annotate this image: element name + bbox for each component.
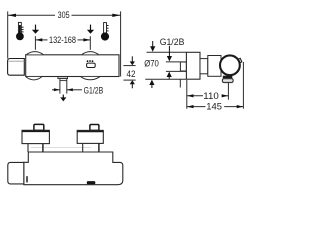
ext left (flange) <box>186 80 188 109</box>
svg-text:G1/2B: G1/2B <box>84 85 104 96</box>
union bump bottom-left <box>26 77 42 80</box>
ext line right <box>89 36 91 50</box>
ext flange top <box>147 51 187 53</box>
union bump bottom-right <box>81 77 100 80</box>
ext flange bottom <box>145 78 186 80</box>
ext right 145 <box>242 62 244 109</box>
flow arrow down outlet <box>60 95 66 102</box>
left union cap <box>34 124 44 130</box>
flow arrow down left <box>32 25 39 34</box>
dia70 bottom arrow <box>149 80 154 88</box>
thermometer hot (left, filled) <box>16 22 24 40</box>
dims 110 / 145 <box>187 62 244 109</box>
dim line 110 <box>187 95 203 97</box>
ext nipple bottom <box>166 70 187 72</box>
flow arrow down right <box>87 25 94 34</box>
dim line <box>35 39 47 41</box>
G1/2B leader arrow up <box>167 72 172 80</box>
svg-text:145: 145 <box>206 102 222 113</box>
outlet icon on bar <box>87 60 96 67</box>
svg-text:305: 305 <box>58 10 70 21</box>
dim 42 <box>123 66 135 81</box>
right union block <box>77 130 103 143</box>
mixer bar body (illustration) <box>24 152 123 185</box>
left union stem <box>27 144 29 152</box>
svg-text:42: 42 <box>127 69 136 80</box>
thermometer cold (right, empty stem) <box>101 23 109 41</box>
bottom outlet (front) <box>58 77 68 79</box>
dia70 top arrow <box>150 41 155 52</box>
left union block <box>22 130 49 143</box>
wall flange dia70 (side) <box>186 52 200 79</box>
arrow 132-168 left <box>36 38 43 41</box>
mixer bar body (front) <box>26 55 119 77</box>
right union stem <box>82 143 84 152</box>
ext line left <box>34 36 36 50</box>
dim G1/2B front <box>52 89 60 91</box>
temperature knob (illustration) <box>8 162 24 184</box>
dim line 145 <box>187 106 206 108</box>
arrow 305 left <box>8 14 16 17</box>
svg-text:110: 110 <box>203 91 219 102</box>
step section (side) <box>200 59 208 74</box>
G1/2B leader arrow down <box>167 46 172 62</box>
knob circle (side) <box>220 55 240 75</box>
outlet ext lines <box>59 81 61 94</box>
valve body (side) <box>208 56 221 77</box>
arrow 132-168 right <box>83 38 90 41</box>
union bump top-left <box>27 52 44 55</box>
knob left end (front) <box>8 59 25 76</box>
svg-text:Ø70: Ø70 <box>144 58 159 69</box>
right union cap <box>90 125 99 131</box>
knob outlet (side) <box>223 76 233 79</box>
ext nipple top <box>166 61 187 63</box>
rear silhouette line <box>31 147 91 149</box>
outlet (illustration) <box>87 181 96 184</box>
svg-text:132-168: 132-168 <box>49 35 76 46</box>
ext right 110 <box>227 83 229 100</box>
dim line 305 <box>8 14 55 16</box>
ext line right 305 <box>120 11 122 76</box>
arrow 305 right <box>112 14 120 17</box>
dim 132-168 <box>35 36 90 50</box>
svg-text:G1/2B: G1/2B <box>160 37 185 48</box>
ext line left 305 <box>7 11 9 58</box>
knob chamfer line <box>8 60 24 62</box>
union bump top-right <box>82 52 98 55</box>
safety stop tick <box>26 176 27 182</box>
nipple hidden edge below flange <box>179 79 181 87</box>
handle tab (side) <box>237 58 242 63</box>
nipple G1/2B (side) <box>180 62 186 71</box>
